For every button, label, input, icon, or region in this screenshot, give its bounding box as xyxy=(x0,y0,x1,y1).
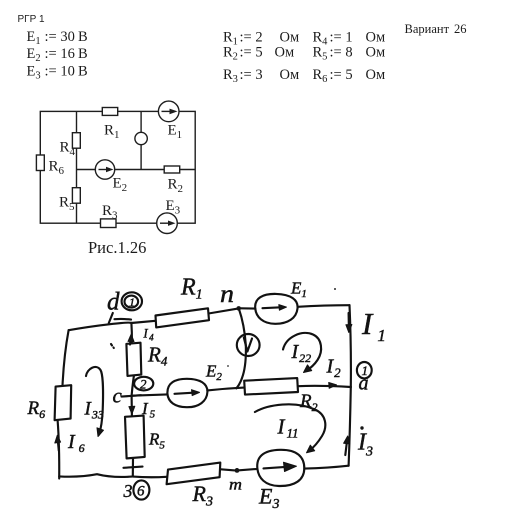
wire node d junction to R1 xyxy=(131,321,155,323)
node 6 circle (bottom) xyxy=(133,480,149,499)
stray pen speck left xyxy=(227,365,229,367)
svg-text:Рис.1.26: Рис.1.26 xyxy=(88,238,146,257)
node 1 circle (at a) xyxy=(357,362,372,378)
node 2 circle (at c) xyxy=(134,377,153,391)
node n dot xyxy=(236,306,241,311)
wire bottom right corner to E3 xyxy=(304,466,348,469)
wire R1 to node n xyxy=(209,308,239,313)
wire inner vertical branch (R4/R5) xyxy=(76,111,78,223)
svg-text:6: 6 xyxy=(137,484,145,500)
junction circle (meter) xyxy=(135,132,147,144)
svg-text:1: 1 xyxy=(362,363,369,378)
wire E1 to top right corner xyxy=(298,305,350,307)
wire R6 to bottom corner xyxy=(58,420,60,478)
svg-text:1: 1 xyxy=(129,295,135,309)
wire node c to E2 xyxy=(132,394,168,395)
loop arrow I11 xyxy=(255,404,325,451)
wire bottom left segment xyxy=(59,474,132,477)
svg-text:Вариант26: Вариант26 xyxy=(405,22,467,36)
arrow inside E3 xyxy=(264,467,292,469)
resistor R2 box xyxy=(244,378,298,395)
svg-text:d: d xyxy=(107,289,120,316)
small pen marks xyxy=(111,344,114,348)
wire E2 to R2 xyxy=(207,388,244,391)
wire doubled stroke near d xyxy=(115,318,132,321)
loop arrow I22 xyxy=(283,333,321,371)
arrow I6 on left wire xyxy=(58,439,59,451)
resistor R3 box xyxy=(167,463,221,485)
node m dot xyxy=(235,468,240,473)
dot above I3 xyxy=(360,426,363,429)
resistor R4 box xyxy=(126,343,141,376)
wire E3 to node m xyxy=(239,469,257,470)
source E2 circle xyxy=(167,379,207,407)
wire right side lower (node a to bottom corner) xyxy=(349,387,351,466)
arrow inside E2 xyxy=(175,393,196,394)
V mark inside voltmeter xyxy=(244,338,252,352)
resistor R4 xyxy=(72,133,80,149)
node c junction tick xyxy=(122,395,142,396)
tick at node d xyxy=(109,313,113,323)
wire R5 to bottom xyxy=(132,458,134,476)
wire voltmeter branch (node n down through meter) xyxy=(236,309,245,389)
svg-text:n: n xyxy=(220,281,234,308)
svg-text:m: m xyxy=(229,477,242,494)
wire right side upper (corner to node a) xyxy=(350,305,351,387)
resistor R5 xyxy=(72,188,80,204)
wire vertical branch with junction circle xyxy=(140,111,142,169)
wire node m to R3 xyxy=(221,469,235,470)
wire node n to E1 xyxy=(241,307,255,309)
arrow I1 on right wire xyxy=(348,313,350,329)
arrowhead E2 xyxy=(106,167,114,172)
voltmeter circle xyxy=(237,334,260,356)
source E2 xyxy=(95,160,114,179)
wire R3 to R5 junction xyxy=(133,476,167,479)
source E3 xyxy=(157,213,178,234)
resistor R2 xyxy=(164,166,180,173)
wire R4 branch upper xyxy=(130,323,133,342)
source E1 circle xyxy=(255,294,297,324)
arrowhead E1 xyxy=(170,109,178,115)
junction tick at node 3 xyxy=(124,467,143,468)
stray pen speck upper xyxy=(334,288,336,290)
resistor R1 xyxy=(102,108,117,116)
svg-text:c: c xyxy=(113,384,123,408)
source E1 xyxy=(158,101,179,122)
node 1 circle (top, near d) xyxy=(122,292,142,310)
wire top left segment (corner to node d junction) xyxy=(69,323,132,331)
svg-text:2: 2 xyxy=(140,377,147,392)
resistor R6 box xyxy=(55,385,72,420)
resistor R3 xyxy=(101,219,117,228)
loop arrow I33 xyxy=(86,367,103,435)
resistor R1 box xyxy=(156,308,210,327)
resistor R6 xyxy=(36,155,44,171)
svg-text:3: 3 xyxy=(123,481,133,501)
wire R5 branch upper with I5 arrow xyxy=(131,396,133,416)
arrowhead E3 xyxy=(168,221,176,226)
svg-text:РГР 1: РГР 1 xyxy=(18,14,46,25)
arrow inside E1 xyxy=(263,307,284,308)
source E3 circle xyxy=(257,450,304,486)
wire left side upper (corner to R6) xyxy=(63,330,69,385)
arrow I4 on R4 branch xyxy=(129,337,132,345)
wire R2 to node a with I2 arrow xyxy=(298,386,351,387)
wire middle horizontal branch xyxy=(77,169,196,171)
wire R4 to node c xyxy=(132,376,134,396)
wire outer rectangle xyxy=(40,111,195,223)
arrow I3 (up, near right wire) xyxy=(345,439,347,456)
resistor R5 box xyxy=(125,416,145,459)
